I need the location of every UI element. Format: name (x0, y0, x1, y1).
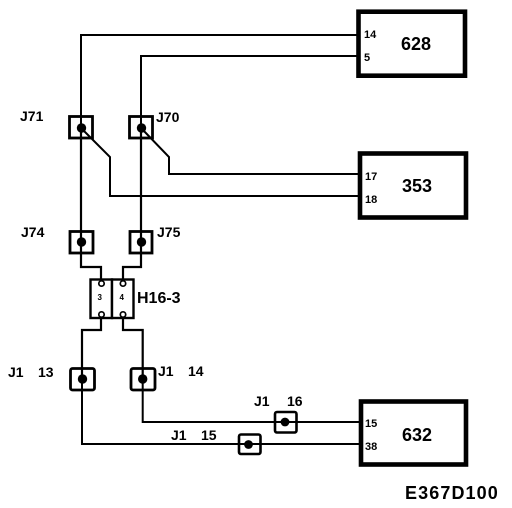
wire J70 to 628 pin 5 (horizontal run) (140, 55, 357, 57)
wire J71 to 628 pin 14 (vertical riser) (80, 35, 82, 128)
box 632 (361, 402, 466, 465)
svg-text:14: 14 (188, 363, 204, 379)
svg-text:J1: J1 (8, 364, 24, 380)
drawing number E367D100 (405, 483, 499, 503)
svg-text:J1: J1 (171, 427, 187, 443)
svg-text:17: 17 (365, 171, 377, 183)
pin label 18 (353) (365, 194, 377, 206)
connector J70 (130, 117, 153, 139)
label J70 (156, 109, 180, 125)
connector J1 15 (239, 435, 261, 455)
svg-text:38: 38 (365, 441, 377, 453)
svg-text:J70: J70 (156, 109, 180, 125)
connector J75 (130, 232, 152, 254)
wire J1 13 to 632 pin 38 (through J1 15) (82, 379, 359, 444)
svg-text:4: 4 (120, 293, 125, 302)
svg-text:15: 15 (201, 427, 217, 443)
box 353 (360, 154, 466, 218)
svg-text:353: 353 (402, 176, 432, 196)
wire J1 14 to 632 pin 15 (through J1 16) (143, 379, 359, 422)
wire H16-3 pin 3 to J1 13 (82, 315, 101, 379)
wire J70 to J75 (vertical) (140, 128, 142, 242)
svg-text:5: 5 (364, 52, 370, 64)
svg-text:632: 632 (402, 425, 432, 445)
splice block H16-3 pin 4 (112, 280, 134, 319)
connector J71 (70, 117, 93, 139)
label J1 15 (171, 427, 217, 443)
wire H16-3 pin 4 to J1 14 (123, 315, 143, 379)
wire J74 to H16-3 pin 3 (81, 242, 101, 283)
svg-text:14: 14 (364, 29, 377, 41)
splice block H16-3 pin 3 (91, 280, 113, 319)
svg-text:3: 3 (98, 293, 103, 302)
svg-text:J1: J1 (158, 363, 174, 379)
connector J1 14 (131, 369, 155, 391)
svg-text:J1: J1 (254, 393, 270, 409)
connector J1 16 (275, 412, 297, 433)
pin label 15 (632) (365, 418, 377, 430)
label H16-3 (137, 290, 181, 307)
wire J70 to 628 pin 5 (vertical riser) (140, 56, 142, 128)
label J75 (157, 224, 181, 240)
label J1 16 (254, 393, 303, 409)
wire J70 to 353 pin 17 (diagonal + steps) (142, 129, 358, 174)
svg-text:18: 18 (365, 194, 377, 206)
svg-text:H16-3: H16-3 (137, 290, 181, 307)
pin label 14 (628) (364, 29, 377, 41)
pin label 38 (632) (365, 441, 377, 453)
svg-text:15: 15 (365, 418, 377, 430)
svg-text:E367D100: E367D100 (405, 483, 499, 503)
svg-text:J75: J75 (157, 224, 181, 240)
label J71 (20, 108, 44, 124)
pin label 5 (628) (364, 52, 370, 64)
svg-text:J71: J71 (20, 108, 44, 124)
svg-text:628: 628 (401, 34, 431, 54)
svg-text:13: 13 (38, 364, 54, 380)
svg-text:16: 16 (287, 393, 303, 409)
label J74 (21, 224, 45, 240)
connector J74 (70, 232, 93, 254)
box 628 (359, 12, 466, 76)
label J1 14 (158, 363, 204, 379)
wire J75 to H16-3 pin 4 (123, 242, 141, 283)
svg-text:J74: J74 (21, 224, 45, 240)
wire J71 to 628 pin 14 (horizontal run) (80, 34, 357, 36)
label J1 13 (8, 364, 54, 380)
pin label 17 (353) (365, 171, 377, 183)
wire J71 to 353 pin 18 (diagonal + steps) (82, 129, 358, 196)
connector J1 13 (71, 369, 95, 391)
wire J71 to J74 (vertical) (80, 128, 82, 242)
